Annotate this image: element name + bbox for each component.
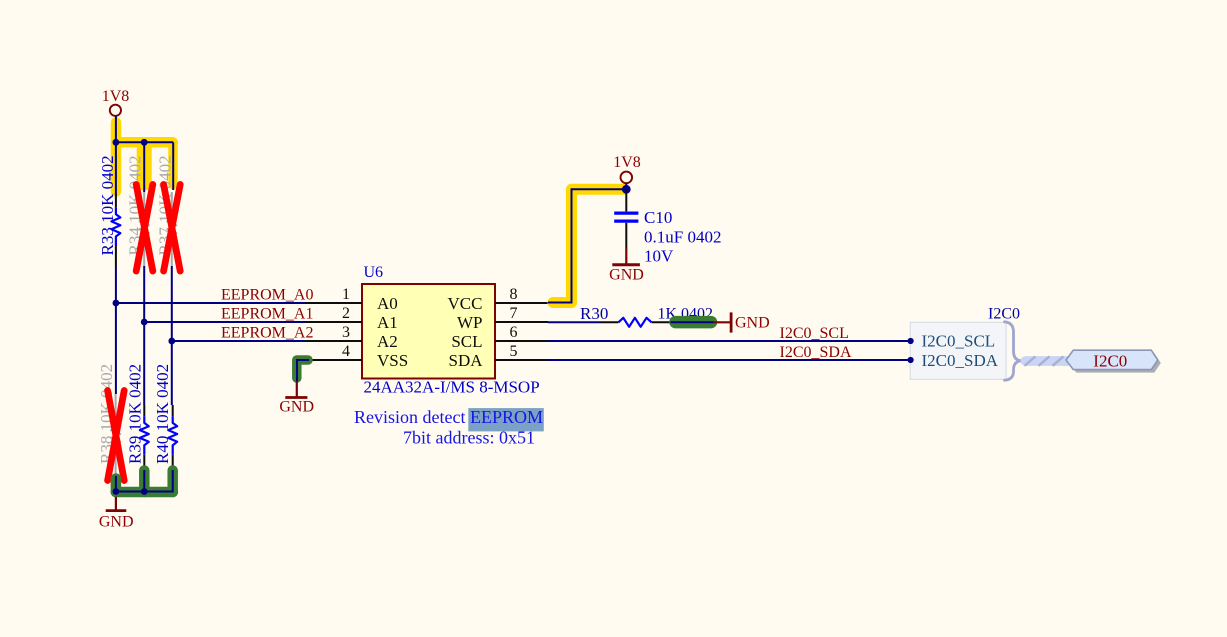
capacitor C10 0.1uF 0402 10V	[614, 190, 721, 266]
no-fit cross over R37	[164, 185, 181, 272]
wire VCC to 1V8	[548, 189, 626, 302]
junction at R33 top	[113, 139, 120, 146]
resistor R39 10K 0402	[126, 322, 149, 471]
resistor R30 1K 0402	[580, 304, 713, 327]
svg-text:C10: C10	[644, 208, 672, 227]
resistor R34 10K 0402 (DNP, gray)	[125, 155, 148, 266]
svg-text:A0: A0	[377, 294, 398, 313]
svg-text:I2C0_SCL: I2C0_SCL	[922, 332, 996, 351]
svg-text:3: 3	[342, 324, 350, 341]
wire net EEPROM_A2	[172, 340, 306, 342]
svg-text:I2C0: I2C0	[1093, 351, 1127, 370]
wire 1V8 vertical from power to junction	[115, 116, 117, 195]
svg-text:5: 5	[510, 343, 518, 360]
svg-text:GND: GND	[609, 267, 644, 284]
svg-text:0.1uF 0402: 0.1uF 0402	[644, 228, 721, 247]
wire R33 bottom to EEPROM_A0 junction	[115, 267, 117, 303]
power port 1V8 (right)	[613, 154, 641, 183]
junction bottom middle	[141, 488, 148, 495]
wire 1V8 horizontal bus over resistors	[116, 141, 173, 143]
wire highlight 1V8 net (yellow) VCC route	[553, 189, 624, 302]
svg-text:7: 7	[510, 305, 518, 322]
wire highlight GND net (green) VSS elbow	[297, 360, 308, 378]
wire highlight 1V8 net (yellow) horizontal	[116, 137, 173, 148]
no-fit cross over R38	[108, 391, 125, 481]
junction at R34 top	[141, 139, 148, 146]
ground symbol GND (right of R30, rotated)	[714, 312, 770, 332]
svg-text:I2C0_SDA: I2C0_SDA	[780, 344, 852, 361]
svg-text:GND: GND	[99, 514, 134, 531]
svg-text:8: 8	[510, 286, 518, 303]
wire highlight 1V8 net (yellow) left column	[111, 123, 122, 192]
svg-text:I2C0_SCL: I2C0_SCL	[780, 325, 849, 342]
svg-text:VCC: VCC	[448, 294, 483, 313]
resistor R40 10K 0402	[153, 341, 177, 471]
svg-text:Revision detect EEPROM: Revision detect EEPROM	[354, 407, 543, 427]
svg-text:1V8: 1V8	[102, 88, 130, 105]
resistor R37 10K 0402 (DNP, gray)	[156, 155, 177, 266]
ground symbol GND (under U6)	[279, 381, 314, 416]
harness brace	[1005, 322, 1023, 380]
wire WP to R30	[548, 321, 599, 323]
svg-text:R39 10K 0402: R39 10K 0402	[126, 364, 145, 464]
wire GND bottom bar	[116, 470, 173, 492]
svg-text:1: 1	[342, 286, 350, 303]
wire R30 to ground	[671, 321, 714, 323]
wire highlight GND net (green) right stub	[167, 471, 178, 493]
wire net I2C0_SCL	[548, 340, 908, 342]
pin 5 SDA	[448, 343, 548, 370]
svg-text:A1: A1	[377, 313, 398, 332]
ground symbol GND (bottom left)	[99, 497, 134, 531]
svg-text:24AA32A-I/MS 8-MSOP: 24AA32A-I/MS 8-MSOP	[364, 378, 540, 397]
power port 1V8 (left)	[102, 88, 130, 116]
svg-text:VSS: VSS	[377, 351, 408, 370]
svg-text:U6: U6	[364, 264, 384, 281]
pin 3 A2	[306, 324, 398, 351]
port I2C0 shadow	[1069, 353, 1161, 372]
harness cable hatches	[1025, 356, 1064, 365]
junction EEPROM_A1 / R34-R39	[141, 319, 148, 326]
pin 2 A1	[306, 305, 398, 332]
svg-text:2: 2	[342, 305, 350, 322]
svg-text:7bit address: 0x51: 7bit address: 0x51	[403, 427, 535, 447]
no-fit cross over R34	[136, 185, 153, 272]
wire 1V8 stem	[625, 183, 627, 192]
svg-text:SCL: SCL	[451, 332, 482, 351]
wire down middle column to R34	[143, 142, 145, 192]
comment text: Revision detect EEPROM	[468, 408, 544, 431]
wire highlight GND net (green) left stub	[111, 479, 122, 493]
pin 8 VCC	[448, 286, 548, 313]
svg-text:GND: GND	[279, 399, 314, 416]
svg-text:WP: WP	[457, 313, 483, 332]
ground symbol GND (under C10)	[609, 248, 644, 284]
junction EEPROM_A2 / R37-R40	[168, 338, 175, 345]
junction EEPROM_A0 / R33-R38	[113, 300, 120, 307]
wire highlight 1V8 net (yellow) middle column	[137, 150, 152, 183]
wire highlight GND net (green) middle stub	[139, 471, 150, 493]
svg-text:EEPROM_A1: EEPROM_A1	[221, 305, 313, 322]
svg-text:1V8: 1V8	[613, 154, 641, 171]
harness cable	[1026, 356, 1068, 366]
pin 6 SCL	[451, 324, 548, 351]
wire net I2C0_SDA	[548, 359, 908, 361]
wire highlight GND net (green) after R30	[676, 316, 712, 329]
wire net EEPROM_A1	[144, 321, 306, 323]
port I2C0	[1066, 350, 1158, 369]
wire highlight 1V8 net (yellow) right column	[168, 142, 177, 184]
junction at 1V8 / C10	[622, 185, 631, 194]
harness entry dot SCL	[908, 338, 914, 344]
svg-text:SDA: SDA	[448, 351, 483, 370]
svg-text:R33 10K 0402: R33 10K 0402	[98, 155, 117, 255]
svg-text:EEPROM_A2: EEPROM_A2	[221, 324, 313, 341]
resistor R33 10K 0402	[98, 155, 121, 267]
svg-text:A2: A2	[377, 332, 398, 351]
junction bottom left	[113, 488, 120, 495]
svg-text:10V: 10V	[644, 247, 674, 266]
pin 7 WP	[457, 305, 548, 332]
pin 4 VSS	[309, 343, 408, 370]
svg-text:6: 6	[510, 324, 518, 341]
svg-text:I2C0_SDA: I2C0_SDA	[922, 351, 999, 370]
svg-text:R30: R30	[580, 304, 608, 323]
resistor R38 10K 0402 (DNP, gray)	[97, 364, 120, 476]
svg-text:EEPROM_A0: EEPROM_A0	[221, 286, 313, 303]
wire VSS to ground	[297, 360, 309, 381]
svg-text:R40 10K 0402: R40 10K 0402	[153, 364, 172, 464]
op IC U6 body	[362, 284, 495, 379]
wire down right column to R37	[172, 142, 174, 190]
wire highlight GND net (green) bottom bar	[116, 487, 173, 498]
harness entry dot SDA	[908, 357, 914, 363]
svg-text:I2C0: I2C0	[988, 306, 1020, 323]
wire EEPROM_A0 branch down to R38	[115, 303, 117, 394]
wire R34 bottom to EEPROM_A1 junction	[143, 266, 145, 322]
pin 1 A0	[306, 286, 398, 313]
wire net EEPROM_A0	[116, 302, 306, 304]
harness entry box	[910, 322, 1006, 379]
svg-text:GND: GND	[735, 314, 770, 331]
svg-text:4: 4	[342, 343, 350, 360]
wire R37 bottom to EEPROM_A2 junction	[171, 266, 173, 341]
